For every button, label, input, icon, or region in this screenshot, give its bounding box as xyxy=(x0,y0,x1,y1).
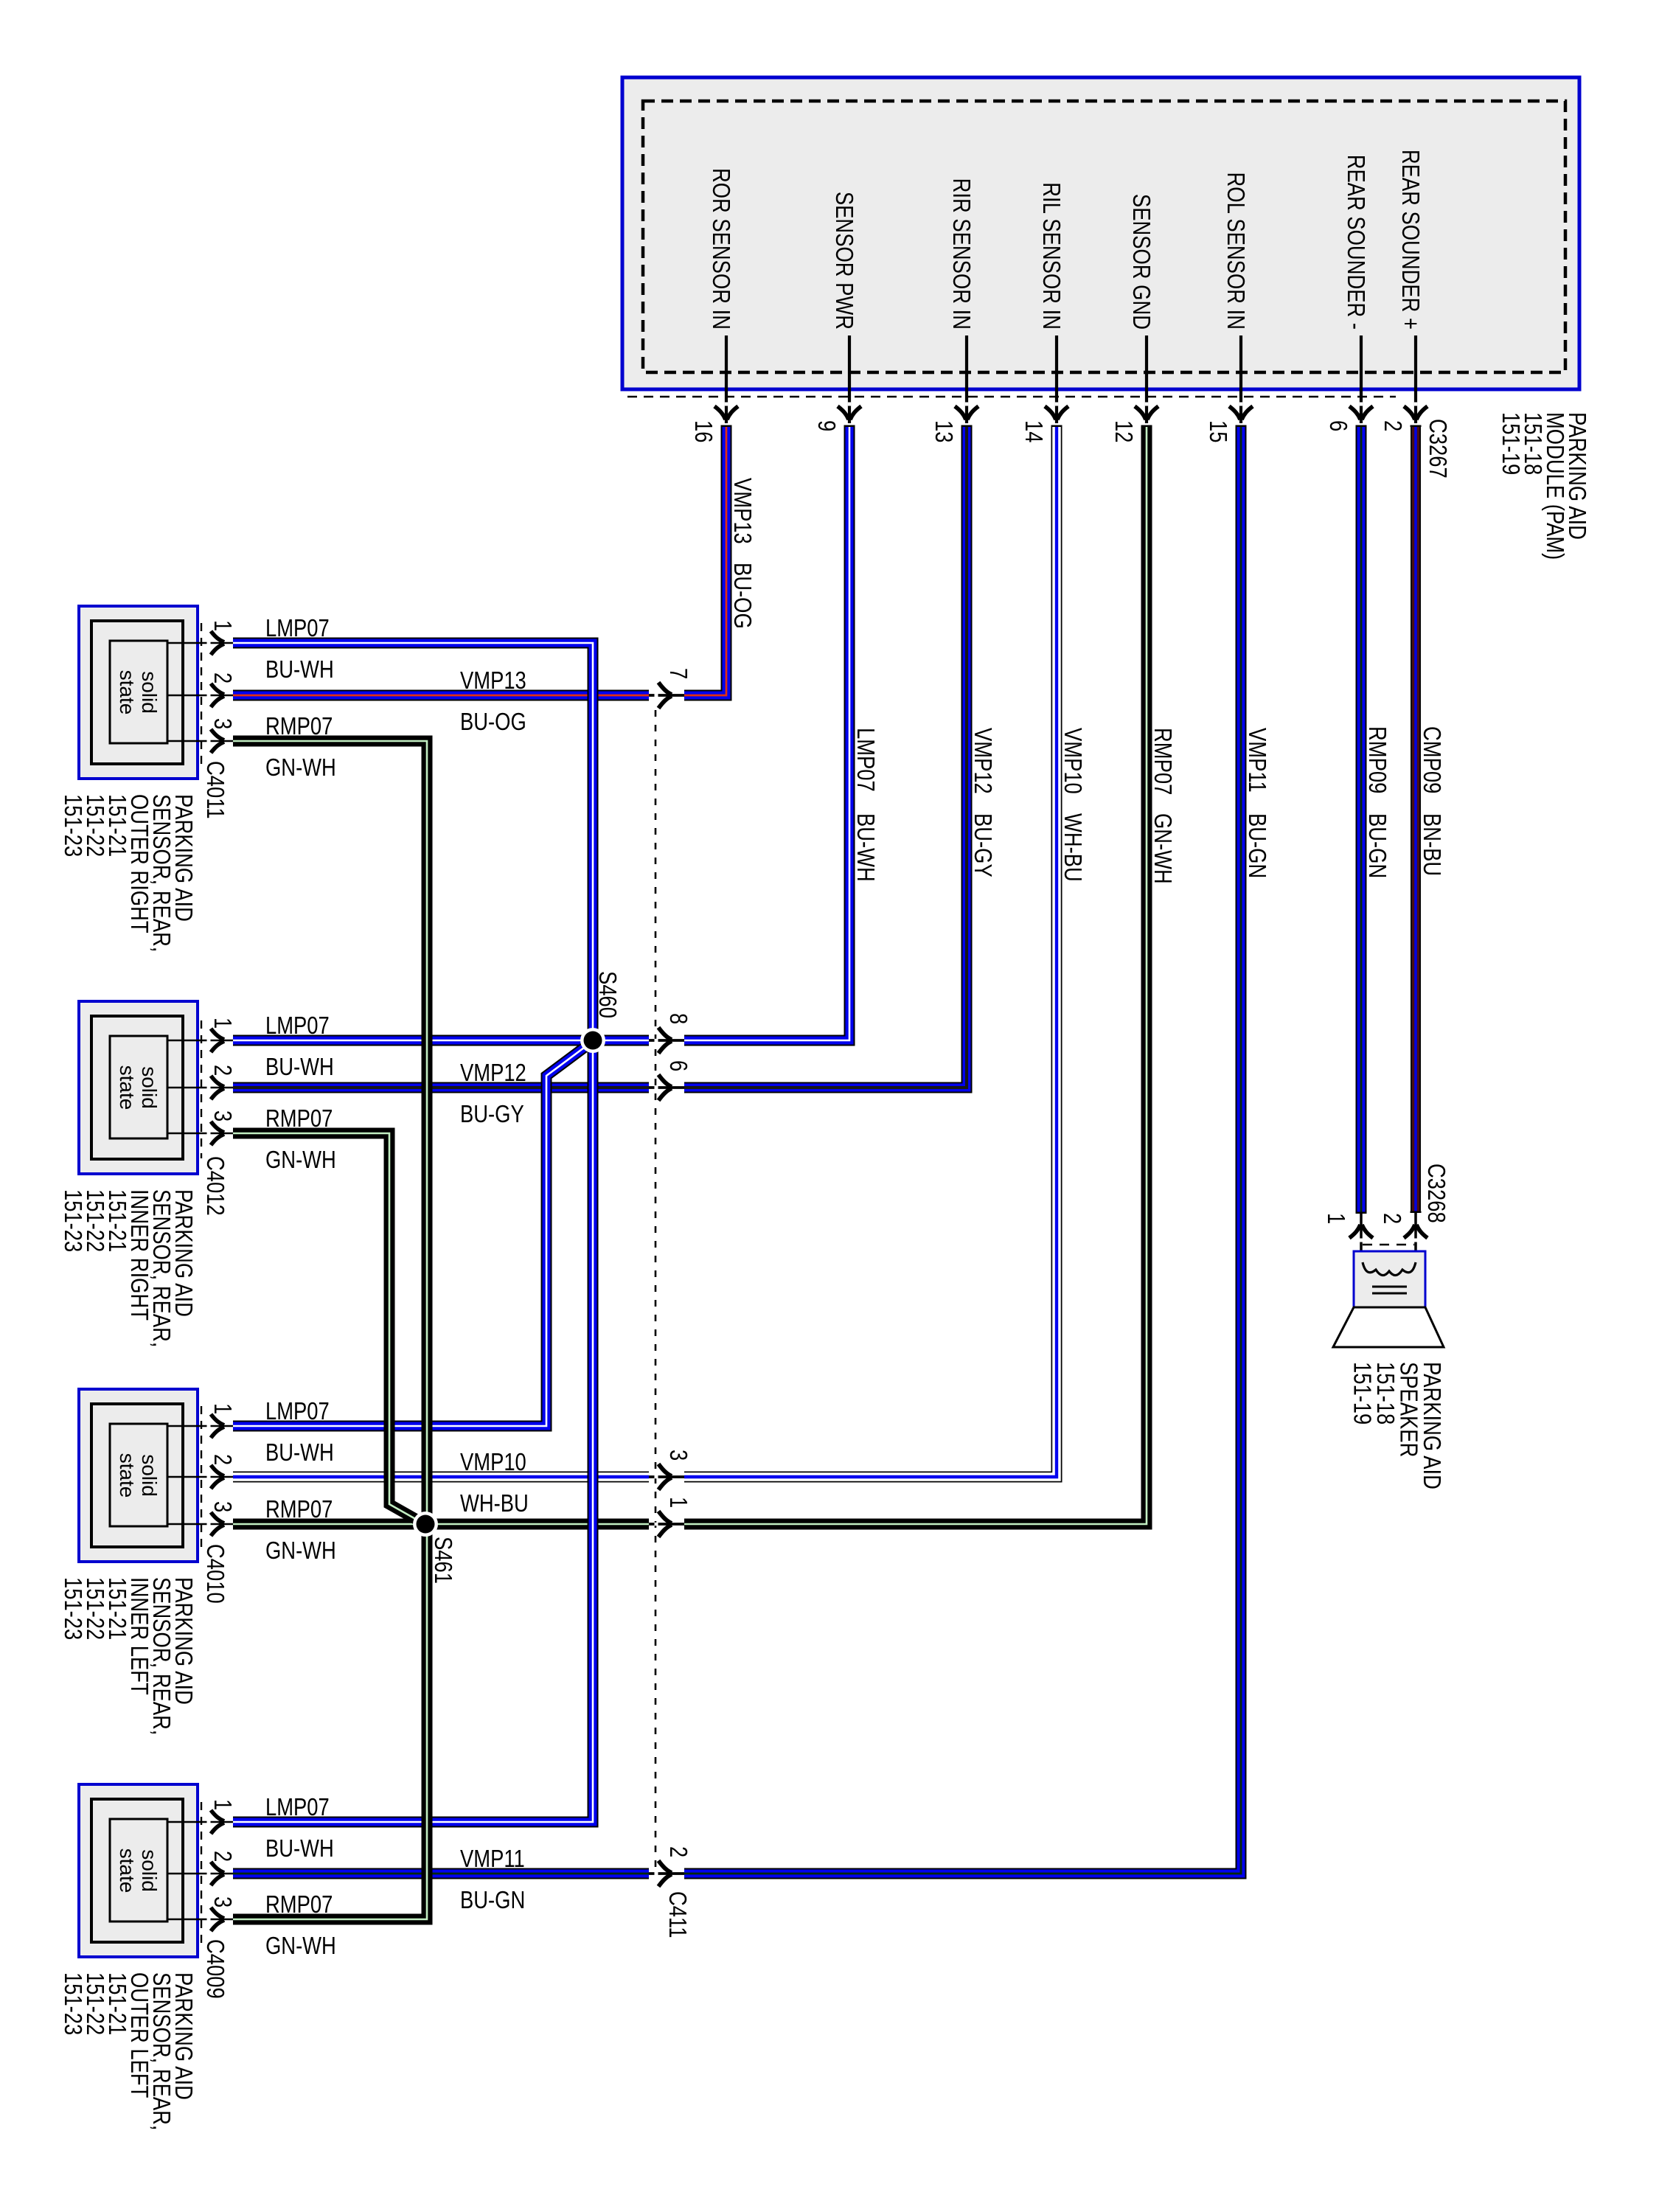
svg-text:151-19: 151-19 xyxy=(1349,1362,1375,1425)
sensor C4011 pin 2 lead line xyxy=(167,695,233,696)
svg-text:state: state xyxy=(116,1065,139,1110)
module PAM inner dashed border xyxy=(643,101,1565,372)
svg-text:LMP07: LMP07 xyxy=(852,728,878,792)
svg-text:BU-WH: BU-WH xyxy=(265,1440,334,1467)
wire RMP09 BU-GN (PAM pin6 to speaker pin1) xyxy=(1356,426,1367,1214)
PAM pin 14 connector arrow xyxy=(1045,403,1068,420)
svg-text:CMP09: CMP09 xyxy=(1418,726,1444,793)
svg-text:C4012: C4012 xyxy=(201,1156,228,1216)
svg-text:BU-WH: BU-WH xyxy=(265,657,334,684)
svg-text:RIR SENSOR IN: RIR SENSOR IN xyxy=(947,178,974,330)
svg-text:C411: C411 xyxy=(664,1891,690,1938)
svg-text:solid: solid xyxy=(138,671,161,714)
sensor C4011 connector dashed line xyxy=(201,623,202,766)
connector C411 dashed line xyxy=(655,710,657,1868)
svg-text:WH-BU: WH-BU xyxy=(1059,813,1085,882)
svg-text:C4010: C4010 xyxy=(201,1544,228,1604)
svg-text:12: 12 xyxy=(1110,420,1136,442)
svg-text:2: 2 xyxy=(1379,420,1405,431)
C411 pin 3 arrow xyxy=(655,1464,672,1490)
svg-text:LMP07: LMP07 xyxy=(265,1013,330,1040)
sensor C4011 inner box xyxy=(91,621,183,764)
connector C3267 dashed line xyxy=(627,396,1396,398)
svg-text:BU-WH: BU-WH xyxy=(852,813,878,882)
svg-text:151-23: 151-23 xyxy=(59,1577,86,1640)
svg-text:14: 14 xyxy=(1020,420,1046,442)
svg-text:VMP11: VMP11 xyxy=(460,1846,525,1873)
C411 pin 6 arrow xyxy=(655,1075,672,1101)
speaker pin 2 arrow xyxy=(1404,1225,1427,1242)
svg-text:RMP07: RMP07 xyxy=(265,1497,333,1523)
sensor C4010 pin 2 arrow xyxy=(207,1465,225,1489)
sensor C4011 pin 2 arrow xyxy=(207,684,225,707)
wire VMP10 WH-BU (sensor C4010 pin2 segment) xyxy=(233,1472,649,1483)
wire RMP07 GN-WH (PAM pin12 to C411 pin1, right segment) xyxy=(684,426,1147,1524)
sensor C4010 solid state box xyxy=(110,1424,167,1526)
sensor C4012 inner box xyxy=(91,1016,183,1159)
wire VMP12 BU-GY (PAM pin13 to C411 pin6, right segment) xyxy=(684,426,967,1088)
svg-text:state: state xyxy=(116,670,139,715)
wire end caps at PAM connector xyxy=(721,425,1422,428)
PAM pin 13 lead line xyxy=(965,335,968,423)
sensor C4012 pin 3 arrow xyxy=(207,1121,225,1145)
sensor C4011 solid state box xyxy=(110,641,167,743)
svg-text:3: 3 xyxy=(209,1896,235,1907)
PAM pin 12 lead line xyxy=(1145,335,1148,423)
svg-text:solid: solid xyxy=(138,1454,161,1497)
sensor C4010 pin 2 lead line xyxy=(167,1476,233,1478)
module PAM (Parking Aid Module) outer box xyxy=(622,77,1579,389)
svg-text:2: 2 xyxy=(1378,1213,1405,1224)
svg-text:WH-BU: WH-BU xyxy=(460,1491,529,1517)
svg-text:solid: solid xyxy=(138,1849,161,1892)
svg-text:1: 1 xyxy=(209,1403,235,1414)
speaker pin 1 lead line xyxy=(1360,1214,1363,1265)
wire VMP13 BU-OG (PAM pin16 to C411 pin7, right segment) xyxy=(684,426,726,695)
svg-text:solid: solid xyxy=(138,1066,161,1109)
speaker transformer box xyxy=(1354,1251,1425,1307)
svg-text:S461: S461 xyxy=(429,1537,456,1584)
C411 pin 8 arrow xyxy=(655,1028,672,1054)
svg-text:1: 1 xyxy=(209,1799,235,1810)
svg-text:15: 15 xyxy=(1204,420,1231,442)
svg-text:LMP07: LMP07 xyxy=(265,1795,330,1821)
svg-text:BU-GN: BU-GN xyxy=(460,1888,525,1914)
PAM pin 15 lead line xyxy=(1239,335,1242,423)
sensor C4010 connector dashed line xyxy=(201,1406,202,1549)
svg-text:VMP11: VMP11 xyxy=(1243,728,1270,793)
sensor C4009 pin 1 arrow xyxy=(207,1810,225,1834)
PAM pin 9 connector arrow xyxy=(838,403,861,420)
speaker core lines xyxy=(1372,1287,1407,1293)
svg-text:BU-GN: BU-GN xyxy=(1363,813,1390,878)
svg-text:state: state xyxy=(116,1848,139,1893)
sensor C4009 pin 2 arrow xyxy=(207,1862,225,1885)
svg-text:SENSOR PWR: SENSOR PWR xyxy=(830,192,857,330)
wire VMP11 BU-GN (sensor C4009 pin2 segment) xyxy=(233,1868,649,1879)
svg-text:SENSOR GND: SENSOR GND xyxy=(1127,194,1154,330)
svg-text:7: 7 xyxy=(664,668,691,679)
wire VMP13 BU-OG (sensor C4011 pin2 segment) xyxy=(233,690,649,701)
sensor C4012 pin 2 lead line xyxy=(167,1087,233,1088)
sensor C4011 pin 1 arrow xyxy=(207,631,225,655)
svg-text:VMP13: VMP13 xyxy=(460,668,526,695)
svg-text:2: 2 xyxy=(209,672,235,684)
svg-text:VMP12: VMP12 xyxy=(460,1060,526,1087)
svg-text:RMP07: RMP07 xyxy=(1149,728,1175,795)
sensor C4009 outer box xyxy=(79,1784,198,1957)
sensor C4009 pin 1 lead line xyxy=(167,1821,233,1823)
PAM pin 9 lead line xyxy=(848,335,851,423)
svg-text:C3268: C3268 xyxy=(1422,1164,1449,1223)
svg-text:RMP07: RMP07 xyxy=(265,1106,333,1133)
sensor C4009 pin 3 lead line xyxy=(167,1919,233,1920)
svg-text:2: 2 xyxy=(664,1846,691,1857)
svg-text:ROR SENSOR IN: ROR SENSOR IN xyxy=(707,168,734,330)
C411 pin 2 arrow xyxy=(655,1861,672,1887)
sensor C4009 pin 2 lead line xyxy=(167,1873,233,1874)
speaker cone xyxy=(1333,1307,1444,1347)
PAM pin 6 lead line xyxy=(1360,335,1363,423)
svg-text:C4011: C4011 xyxy=(201,761,228,819)
svg-text:RMP07: RMP07 xyxy=(265,714,333,740)
svg-text:state: state xyxy=(116,1453,139,1498)
svg-text:BU-WH: BU-WH xyxy=(265,1054,334,1081)
wire LMP07 BU-WH (splice S460 down to sensor C4009 pin1) xyxy=(233,1041,593,1822)
svg-text:2: 2 xyxy=(209,1065,235,1076)
PAM pin 2 lead line xyxy=(1414,335,1417,423)
svg-text:BU-GY: BU-GY xyxy=(969,813,995,877)
sensor C4012 outer box xyxy=(79,1001,198,1174)
C411 pin 7 lead line xyxy=(649,694,684,697)
svg-text:151-23: 151-23 xyxy=(59,1972,86,2035)
sensor C4012 pin 2 arrow xyxy=(207,1076,225,1099)
svg-text:LMP07: LMP07 xyxy=(265,1399,330,1425)
C411 pin 8 lead line xyxy=(649,1039,684,1042)
PAM pin 6 connector arrow xyxy=(1349,403,1373,420)
wire LMP07 BU-WH (PAM pin9 to C411 pin8, right segment) xyxy=(684,426,849,1040)
sensor C4012 connector dashed line xyxy=(201,1020,202,1158)
sensor C4012 pin 1 lead line xyxy=(167,1040,233,1041)
wire RMP07 GN-WH (sensor C4012 pin3 jog to splice S461) xyxy=(233,1133,423,1523)
wire RMP07 GN-WH (sensor C4011 pin3 down through splice S461 to sensor C4009 pin3) xyxy=(233,741,427,1919)
PAM pin 2 connector arrow xyxy=(1404,403,1427,420)
svg-text:VMP10: VMP10 xyxy=(1059,728,1085,794)
svg-text:13: 13 xyxy=(930,420,956,442)
C411 pin 2 lead line xyxy=(649,1872,684,1875)
splice S460 xyxy=(580,1028,605,1053)
svg-text:C4009: C4009 xyxy=(201,1939,228,1999)
speaker pin 2 lead line xyxy=(1414,1213,1417,1265)
connector C3268 dashed line xyxy=(1363,1244,1414,1245)
svg-text:BU-WH: BU-WH xyxy=(265,1836,334,1863)
svg-text:151-23: 151-23 xyxy=(59,1189,86,1252)
wire VMP12 BU-GY (sensor C4012 pin2 segment) xyxy=(233,1082,649,1093)
svg-text:6: 6 xyxy=(664,1060,691,1071)
wire LMP07 BU-WH (sensor C4012 pin1 through splice S460) xyxy=(233,1035,649,1046)
svg-text:3: 3 xyxy=(209,718,235,729)
PAM pin 15 connector arrow xyxy=(1229,403,1253,420)
wire LMP07 BU-WH (sensor C4011 pin1 down to splice S460) xyxy=(233,643,593,1041)
PAM pin 12 connector arrow xyxy=(1135,403,1158,420)
svg-text:16: 16 xyxy=(689,420,716,442)
svg-text:LMP07: LMP07 xyxy=(265,616,330,642)
speaker pin 1 arrow xyxy=(1349,1225,1373,1242)
svg-text:3: 3 xyxy=(209,1110,235,1121)
svg-text:1: 1 xyxy=(664,1497,691,1508)
svg-text:1: 1 xyxy=(209,620,235,631)
svg-text:6: 6 xyxy=(1324,420,1351,431)
sensor C4010 pin 1 lead line xyxy=(167,1425,233,1427)
wire end cap speaker pin 2 xyxy=(1411,1211,1422,1214)
PAM pin 16 connector arrow xyxy=(714,403,738,420)
sensor C4012 pin 3 lead line xyxy=(167,1133,233,1134)
PAM pin 14 lead line xyxy=(1055,335,1058,423)
sensor C4009 solid state box xyxy=(110,1819,167,1921)
svg-text:GN-WH: GN-WH xyxy=(265,755,336,782)
svg-text:3: 3 xyxy=(664,1450,691,1461)
C411 pin 1 lead line xyxy=(649,1523,684,1526)
svg-text:VMP12: VMP12 xyxy=(969,728,995,794)
svg-text:2: 2 xyxy=(209,1851,235,1862)
sensor C4011 pin 3 arrow xyxy=(207,729,225,753)
wire VMP10 WH-BU (PAM pin14 to C411 pin3, right segment) xyxy=(684,426,1057,1477)
sensor C4010 pin 3 lead line xyxy=(167,1523,233,1525)
wire RMP07 GN-WH (sensor C4010 pin3 through splice S461) xyxy=(233,1519,649,1530)
C411 pin 1 arrow xyxy=(655,1512,672,1537)
sensor C4009 inner box xyxy=(91,1799,183,1942)
svg-text:RIL SENSOR IN: RIL SENSOR IN xyxy=(1037,182,1064,330)
sensor C4010 pin 3 arrow xyxy=(207,1512,225,1536)
svg-text:1: 1 xyxy=(1322,1213,1349,1224)
svg-text:1: 1 xyxy=(209,1018,235,1029)
speaker coil xyxy=(1363,1262,1416,1276)
svg-text:GN-WH: GN-WH xyxy=(265,1147,336,1174)
wire CMP09 BN-BU (PAM pin2 to speaker pin2) xyxy=(1411,426,1421,1213)
svg-text:151-19: 151-19 xyxy=(1497,412,1523,475)
sensor C4011 outer box xyxy=(79,606,198,779)
svg-text:GN-WH: GN-WH xyxy=(265,1933,336,1960)
C411 pin 6 lead line xyxy=(649,1086,684,1089)
wire end cap speaker pin 1 xyxy=(1356,1212,1367,1214)
wire VMP11 BU-GN (PAM pin15 to C411 pin2, right segment) xyxy=(684,426,1241,1874)
sensor C4010 inner box xyxy=(91,1404,183,1547)
sensor C4011 pin 3 lead line xyxy=(167,740,233,742)
svg-text:RMP09: RMP09 xyxy=(1363,726,1390,793)
svg-text:3: 3 xyxy=(209,1501,235,1512)
svg-text:VMP13: VMP13 xyxy=(728,478,755,544)
svg-text:RMP07: RMP07 xyxy=(265,1892,333,1919)
C411 pin 3 lead line xyxy=(649,1475,684,1478)
splice S461 xyxy=(413,1512,438,1537)
svg-text:REAR SOUNDER -: REAR SOUNDER - xyxy=(1342,155,1368,330)
svg-text:BU-GY: BU-GY xyxy=(460,1102,524,1128)
svg-text:2: 2 xyxy=(209,1454,235,1465)
C411 pin 7 arrow xyxy=(655,683,672,709)
svg-text:9: 9 xyxy=(813,420,839,431)
PAM pin 16 lead line xyxy=(725,335,728,423)
sensor C4012 solid state box xyxy=(110,1036,167,1138)
PAM pin 13 connector arrow xyxy=(955,403,978,420)
svg-text:ROL SENSOR IN: ROL SENSOR IN xyxy=(1222,173,1248,330)
svg-text:GN-WH: GN-WH xyxy=(1149,813,1175,884)
svg-text:8: 8 xyxy=(664,1013,691,1024)
svg-text:151-23: 151-23 xyxy=(59,794,86,857)
svg-text:BN-BU: BN-BU xyxy=(1418,813,1444,876)
svg-text:S460: S460 xyxy=(594,971,620,1018)
svg-text:BU-OG: BU-OG xyxy=(460,709,526,736)
svg-text:VMP10: VMP10 xyxy=(460,1450,526,1476)
svg-text:BU-OG: BU-OG xyxy=(728,563,755,629)
sensor C4012 pin 1 arrow xyxy=(207,1029,225,1052)
svg-text:C3267: C3267 xyxy=(1424,419,1450,479)
sensor C4010 outer box xyxy=(79,1389,198,1562)
svg-text:GN-WH: GN-WH xyxy=(265,1538,336,1565)
svg-text:REAR SOUNDER +: REAR SOUNDER + xyxy=(1397,150,1423,330)
sensor C4010 pin 1 arrow xyxy=(207,1414,225,1438)
wire LMP07 BU-WH (splice S460 jog down to sensor C4010 pin1) xyxy=(233,1041,593,1426)
svg-text:BU-GN: BU-GN xyxy=(1243,813,1270,878)
sensor C4009 pin 3 arrow xyxy=(207,1907,225,1931)
sensor C4009 connector dashed line xyxy=(201,1802,202,1944)
sensor C4011 pin 1 lead line xyxy=(167,642,233,644)
